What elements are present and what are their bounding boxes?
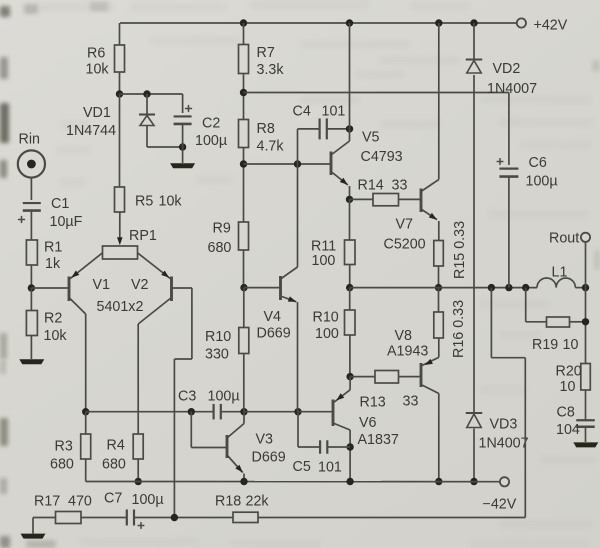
svg-text:100µ: 100µ (132, 492, 164, 508)
wire Rin to C1 (30, 178, 32, 200)
wire C5 left lead (298, 412, 320, 447)
svg-text:33: 33 (403, 394, 419, 410)
wire R13 left lead (350, 376, 375, 378)
wire C7 to feedback node (134, 517, 233, 519)
wire VD1 bottom lead (147, 126, 183, 148)
diode VD1 1N4744 zener (66, 105, 155, 139)
svg-text:Rin: Rin (19, 132, 41, 148)
wire R6 top lead from rail (119, 23, 121, 45)
svg-text:D669: D669 (257, 326, 291, 342)
svg-text:680: 680 (208, 240, 232, 256)
resistor R7 3.3k (239, 45, 285, 79)
wire VD1 top lead (146, 94, 148, 115)
wire R6 to node B (119, 72, 121, 94)
wire V8 collector to -42V rail (438, 394, 440, 482)
node feedback junction V2 base/C7/R18 (171, 514, 178, 521)
node V5 base / V4 collector junction (294, 160, 301, 167)
node V5 emitter / R14 / R11 junction (346, 196, 353, 203)
svg-text:680: 680 (102, 457, 126, 473)
svg-text:100: 100 (315, 326, 339, 342)
svg-text:1N4007: 1N4007 (479, 436, 529, 452)
wire C2 top lead (182, 94, 184, 113)
svg-text:C5200: C5200 (384, 237, 426, 253)
wire V6 collector down (349, 430, 351, 482)
svg-text:C2: C2 (202, 116, 220, 132)
resistor R14 33 (358, 178, 408, 206)
svg-text:V7: V7 (396, 217, 414, 233)
resistor R17 470 (34, 494, 92, 524)
svg-text:5401x2: 5401x2 (97, 299, 144, 315)
svg-text:680: 680 (50, 457, 74, 473)
wire node E to R10 (243, 288, 245, 328)
resistor R13 33 (360, 371, 419, 411)
svg-text:R3: R3 (55, 439, 73, 455)
svg-text:R17: R17 (34, 494, 60, 510)
svg-text:10µF: 10µF (50, 214, 83, 230)
node E junction R9/R10/V4 base (240, 284, 247, 291)
wire C3 right to node (221, 411, 244, 413)
svg-text:V6: V6 (359, 415, 377, 431)
node V3 emitter on -42V rail (240, 478, 247, 485)
svg-text:V1: V1 (93, 277, 111, 293)
svg-text:101: 101 (318, 460, 342, 476)
node output rail L1 left (522, 284, 529, 291)
svg-text:100µ: 100µ (526, 174, 558, 190)
svg-text:C7: C7 (104, 491, 122, 507)
node A junction R1/R2/V1-base (28, 284, 35, 291)
wire node A to V1 base (31, 287, 69, 289)
capacitor C5 101 (293, 440, 342, 475)
wire R7 to node C (243, 74, 245, 120)
resistor R1 1k (26, 240, 62, 273)
node C junction R7/R8/bootstrap (240, 89, 247, 96)
wire C6 to output rail (508, 177, 510, 288)
svg-text:1k: 1k (45, 256, 61, 272)
resistor R19 10 (532, 317, 578, 353)
node R11/R10 on output rail (346, 284, 353, 291)
capacitor C4 101 (293, 104, 346, 140)
svg-text:330: 330 (205, 347, 229, 363)
resistor R6 10k (86, 45, 125, 78)
wire V2 base to feedback (172, 288, 192, 518)
svg-text:V5: V5 (362, 130, 380, 146)
wire bootstrap line R7/R8 to C6 (244, 93, 509, 166)
resistor R11 100 (311, 239, 355, 270)
wire R11 to output rail (349, 265, 351, 288)
node output rail to feedback (488, 284, 495, 291)
svg-text:10k: 10k (86, 62, 110, 78)
resistor R10 330 (205, 328, 249, 363)
svg-text:A1943: A1943 (387, 344, 428, 360)
wire V5 collector to +42V rail (331, 23, 350, 155)
node C5 right / V6 collector junction (346, 443, 353, 450)
ground below C2/VD1 (170, 163, 195, 168)
wire V1 collector line to C3 (86, 411, 214, 413)
node C4 / V5 collector junction (346, 125, 353, 132)
wire node to R3 (85, 412, 87, 434)
resistor R3 680 (50, 434, 91, 473)
svg-text:C4: C4 (293, 104, 311, 120)
wire C2 to ground (182, 125, 184, 164)
capacitor C6 100u (497, 155, 558, 190)
svg-text:C4793: C4793 (361, 149, 403, 165)
svg-text:R10: R10 (205, 329, 231, 345)
wire C4 right lead (327, 128, 349, 130)
wire R4 bottom to -42V rail (137, 459, 139, 482)
capacitor C8 104 (556, 405, 595, 439)
svg-text:+42V: +42V (534, 18, 568, 34)
wire R18 to output branch (258, 517, 525, 519)
node V7 collector on rail (435, 19, 442, 26)
transistor V8 A1943 (387, 328, 439, 394)
wire V1 collector down (85, 314, 87, 412)
wire R17 to C7 (81, 517, 127, 519)
svg-text:A1837: A1837 (358, 432, 399, 448)
svg-text:100µ: 100µ (208, 389, 240, 405)
resistor R4 680 (102, 434, 143, 473)
ground left of R17 (21, 534, 46, 539)
svg-text:R14: R14 (358, 178, 384, 194)
node R7 top on +42V rail (240, 19, 247, 26)
wire VD3 to -42V rail (473, 429, 475, 482)
svg-text:VD2: VD2 (493, 61, 521, 77)
capacitor C7 100u (104, 491, 164, 529)
label 5401x2 value (0, 0, 1, 1)
node D junction R8/R9/V5 base (240, 160, 247, 167)
wire R9 to node E (243, 250, 245, 288)
svg-text:22k: 22k (246, 494, 270, 510)
wire node B to R5 (119, 94, 121, 187)
capacitor C3 100u (178, 389, 240, 420)
wire rail to R7 (243, 23, 245, 45)
transistor V6 A1837 (333, 377, 399, 448)
svg-text:470: 470 (68, 494, 92, 510)
resistor R18 22k (215, 494, 269, 523)
svg-text:R16 0.33: R16 0.33 (451, 300, 467, 358)
wire R2 to ground (30, 336, 32, 360)
resistor R8 4.7k (239, 120, 285, 155)
node V4 emitter / V6 base junction (294, 408, 301, 415)
wire output rail (350, 287, 586, 289)
svg-text:33: 33 (392, 178, 408, 194)
svg-text:D669: D669 (252, 450, 286, 466)
svg-text:10k: 10k (159, 194, 183, 210)
node VD1 top junction (143, 90, 150, 97)
wire VD2 to VD3 (473, 75, 475, 413)
resistor R5 10k (115, 187, 183, 212)
wire R8 to node D (243, 148, 245, 223)
wire V3 base lead (191, 412, 227, 448)
wire R19 right lead (570, 321, 586, 323)
wire +42V top supply rail (120, 22, 517, 24)
svg-text:R15 0.33: R15 0.33 (452, 221, 468, 279)
node output rail L1 right (582, 284, 589, 291)
svg-text:R20: R20 (556, 364, 582, 380)
svg-text:10: 10 (560, 379, 576, 395)
svg-text:1N4007: 1N4007 (487, 81, 537, 97)
potentiometer RP1 (103, 228, 157, 259)
terminal +42V (517, 18, 568, 34)
node C3/R10/V3 collector junction (240, 408, 247, 415)
svg-text:R13: R13 (360, 395, 386, 411)
wire node to V4 emitter node (244, 411, 298, 413)
svg-text:VD3: VD3 (490, 417, 518, 433)
terminal -42V (483, 477, 517, 512)
svg-text:R8: R8 (257, 121, 275, 137)
svg-text:C1: C1 (51, 196, 69, 212)
svg-text:R2: R2 (44, 311, 62, 327)
wire node B to VD1/C2 (120, 93, 183, 95)
svg-text:3.3k: 3.3k (257, 62, 285, 78)
svg-text:R5: R5 (135, 194, 153, 210)
node B junction R6/R5/VD1 (116, 90, 123, 97)
transistor V3 D669 (227, 412, 286, 482)
svg-text:104: 104 (556, 422, 580, 438)
svg-text:C3: C3 (178, 389, 196, 405)
wire R3 bottom to -42V rail (85, 459, 87, 482)
wire -42V rail (86, 481, 500, 483)
wire C4 left lead (298, 129, 320, 164)
svg-text:V8: V8 (395, 328, 413, 344)
wire R15 to output rail (438, 266, 440, 288)
wire ground to R17 (33, 518, 56, 534)
transistor V5 C4793 (331, 130, 403, 200)
inductor L1 (537, 265, 575, 288)
svg-text:R4: R4 (107, 438, 125, 454)
svg-text:100µ: 100µ (195, 133, 227, 149)
ground below C8 (573, 442, 598, 447)
wire rail to R16 (438, 288, 440, 312)
svg-text:10: 10 (563, 337, 579, 353)
svg-text:101: 101 (322, 104, 346, 120)
wire rail to R10 100 (349, 288, 351, 310)
wire V2 collector to R4 (137, 324, 139, 434)
svg-text:100: 100 (312, 253, 336, 269)
node VD2 top on rail (470, 19, 477, 26)
svg-text:C6: C6 (529, 155, 547, 171)
wire C5 right lead (328, 446, 350, 448)
svg-text:−42V: −42V (483, 497, 517, 513)
wire rail to VD2 (473, 23, 475, 60)
svg-text:L1: L1 (552, 265, 568, 281)
node V1 collector / R3 top (82, 408, 89, 415)
svg-text:10k: 10k (44, 328, 68, 344)
svg-text:R6: R6 (87, 46, 105, 62)
capacitor C1 10uF (18, 196, 83, 230)
terminal Rout (549, 231, 590, 288)
wire output feedback drop (491, 288, 525, 518)
node C2/VD1 bottom junction (179, 143, 186, 150)
svg-text:C8: C8 (557, 405, 575, 421)
resistor R9 680 (208, 221, 249, 257)
wire R14 left lead (350, 198, 374, 200)
wire R13 right to V8 base (399, 376, 422, 378)
node V5 collector column on rail (346, 19, 353, 26)
svg-text:VD1: VD1 (83, 105, 111, 121)
node V8 collector on -42V rail (435, 478, 442, 485)
wire C1 to R1 (30, 211, 32, 241)
transistor V1 5401 (69, 253, 110, 314)
node V6 emitter / R13 junction (346, 373, 353, 380)
ground below R2 (19, 359, 44, 364)
node R19/R20 junction (582, 318, 589, 325)
wire node to V6 base (298, 411, 333, 413)
svg-text:1N4744: 1N4744 (66, 123, 116, 139)
svg-text:Rout: Rout (549, 231, 579, 247)
svg-text:C5: C5 (293, 459, 311, 475)
wire node A to R2 (30, 288, 32, 311)
wire R1 to node A (30, 265, 32, 288)
svg-text:4.7k: 4.7k (257, 139, 285, 155)
node VD3 bottom on -42V rail (470, 478, 477, 485)
svg-text:RP1: RP1 (129, 228, 157, 244)
node Rin input terminal (18, 132, 45, 178)
wire R20 to C8 (585, 390, 587, 420)
wire node D to V5 base (244, 163, 332, 165)
resistor R2 10k (26, 311, 67, 345)
svg-text:V4: V4 (264, 309, 282, 325)
diode VD2 1N4007 (466, 60, 537, 98)
resistor R10 100 (313, 310, 356, 343)
diode VD3 1N4007 (466, 413, 529, 452)
node R4 bottom junction (135, 478, 142, 485)
svg-text:R7: R7 (257, 45, 275, 61)
capacitor C2 100u (174, 105, 227, 149)
transistor V4 D669 (257, 164, 298, 412)
wire C8 to ground (585, 427, 587, 442)
svg-text:R10: R10 (313, 310, 339, 326)
node R15/R16 on output rail (435, 284, 442, 291)
svg-text:R18: R18 (215, 494, 241, 510)
wire R14 right to V7 base (399, 198, 422, 200)
resistor R16 0.33 (434, 300, 467, 358)
node V6 collector on -42V rail (346, 478, 353, 485)
svg-text:V2: V2 (131, 277, 149, 293)
wire R10 to C3 node (243, 354, 245, 412)
svg-text:R9: R9 (213, 221, 231, 237)
wire R11 top lead (349, 199, 351, 240)
resistor R20 10 (556, 364, 591, 396)
node output rail C6 (505, 284, 512, 291)
svg-text:R19: R19 (532, 337, 558, 353)
transistor V2 5401 (97, 253, 172, 324)
wire R10 100 to V6 emitter node (349, 335, 351, 377)
wire V7 collector to +42V rail (438, 23, 440, 180)
wire node E to V4 base (244, 287, 281, 289)
resistor R15 0.33 (434, 221, 468, 279)
svg-text:R1: R1 (44, 240, 62, 256)
wire Rout column down (585, 288, 587, 364)
transistor V7 C5200 (384, 180, 439, 253)
node C3 left / V3 base junction (188, 408, 195, 415)
wire L1 left to R19 (526, 288, 547, 322)
wire R5 to RP1 wiper arrow (117, 212, 123, 245)
svg-text:V3: V3 (256, 432, 274, 448)
